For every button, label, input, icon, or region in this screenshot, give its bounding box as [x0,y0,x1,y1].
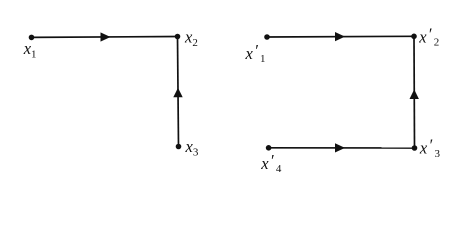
node x1 [29,35,35,41]
wire x'3-x'2 [413,36,416,148]
arrowhead x3 to x2 [173,88,182,97]
arrowhead x'1 to x'2 [335,32,345,41]
node x'2 [411,34,417,40]
wire x'4-x'3 [269,147,415,149]
node x'4 [266,145,272,151]
wire x'1-x'2 [267,35,414,38]
node x2 [175,34,181,40]
arrowhead x'4 to x'3 [335,143,345,152]
wire x1-x2 [32,36,178,39]
arrowhead x'3 to x'2 [410,89,419,99]
node x3 [176,144,182,150]
wire x3-x2 [178,37,179,147]
arrowhead x1 to x2 [101,32,111,41]
node x'3 [412,145,418,151]
node x'1 [264,34,270,40]
